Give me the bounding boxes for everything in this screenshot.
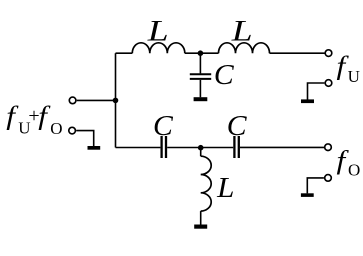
terminal fU reference [325,80,332,87]
wire inductor L3 top lead [200,148,202,157]
wire inductor L3 bottom lead [200,211,202,225]
label fO [337,146,361,179]
ground under C1 [194,97,208,101]
svg-text:O: O [348,161,360,180]
wire bottom branch right [240,146,324,148]
wire trunk vertical [115,53,117,147]
ground under L3 [194,225,207,229]
wire cap C1 top lead [199,53,201,73]
svg-text:L: L [147,15,169,48]
svg-text:L: L [231,15,253,48]
capacitor C3 plates [234,136,238,158]
svg-text:C: C [227,111,248,142]
wire top branch left [116,52,133,54]
wire bottom branch middle [167,147,233,149]
capacitor C1 plates [190,74,211,79]
capacitor C2 plates [162,136,166,158]
inductor L2 [219,43,270,53]
ground fO [301,193,314,197]
wire bottom branch left [116,147,161,149]
svg-text:O: O [50,119,62,138]
svg-text:C: C [214,60,235,91]
wire input reference to ground [76,131,94,147]
wire fU reference to ground [308,83,325,100]
node top junction [198,50,204,56]
terminal output fO [325,144,332,151]
terminal input reference [69,127,76,134]
label fU [337,52,360,86]
wire cap C1 bottom lead [199,80,201,97]
wire L2 to output [270,52,325,54]
ground fU [301,99,314,103]
svg-text:L: L [216,172,234,204]
terminal input signal [69,97,76,104]
node input junction [113,98,119,104]
inductor L3 [201,156,212,211]
svg-text:C: C [153,111,174,142]
terminal fO reference [325,175,332,182]
ground input [88,146,101,150]
wire L1 to node [185,52,219,54]
label fU+fO input [6,102,62,139]
wire fO reference to ground [307,178,324,194]
wire input to trunk [77,99,116,101]
node bottom junction [198,145,204,151]
svg-text:U: U [348,67,360,86]
inductor L1 [132,43,185,53]
terminal output fU [325,50,332,57]
